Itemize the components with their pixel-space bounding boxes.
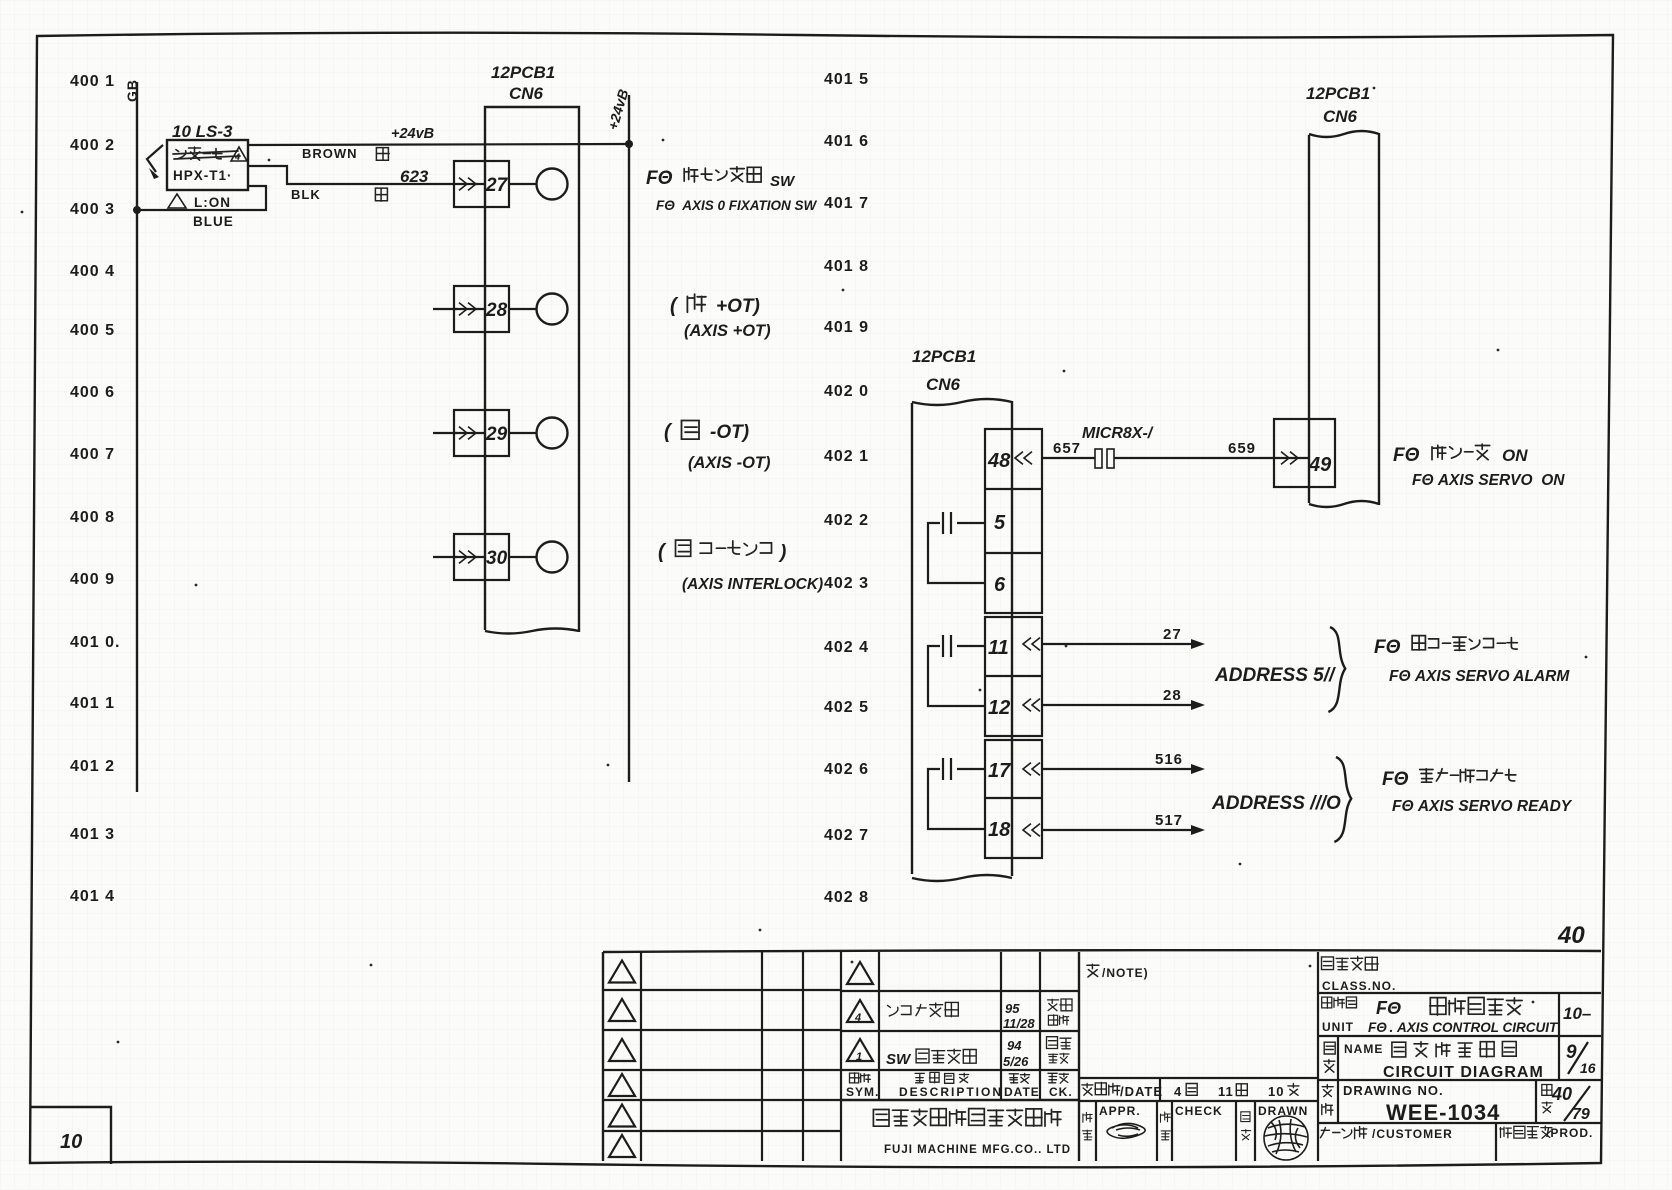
svg-text:FΘ AXIS 0 FIXATION SW: FΘ AXIS 0 FIXATION SW <box>656 198 818 213</box>
svg-text:FΘ AXIS SERVO READY: FΘ AXIS SERVO READY <box>1392 798 1573 815</box>
svg-text:APPR.: APPR. <box>1099 1104 1141 1118</box>
name cell circuit diagram <box>1324 1042 1596 1082</box>
revision table left <box>603 952 841 1161</box>
wire 516 from connector <box>1023 751 1205 775</box>
revision triangle 4 in sensor box <box>231 147 247 162</box>
annotation axis interlock (jp) <box>658 540 786 563</box>
svg-text:(AXIS INTERLOCK): (AXIS INTERLOCK) <box>682 576 823 593</box>
svg-text:18: 18 <box>988 819 1011 841</box>
svg-text:CN6: CN6 <box>509 84 544 103</box>
svg-text:12PCB1: 12PCB1 <box>491 63 555 82</box>
svg-text:/PROD.: /PROD. <box>1546 1126 1593 1140</box>
pointer arrow to sensor <box>147 145 163 179</box>
brace for address 511 <box>1328 627 1345 712</box>
sensor HPX-T1 body <box>167 140 248 190</box>
net ladder line numbers 4001-4014 <box>70 73 120 905</box>
svg-text:4: 4 <box>854 1012 861 1024</box>
brace for address 1110 <box>1334 757 1351 842</box>
svg-text:401 5: 401 5 <box>824 71 869 88</box>
svg-text:401 9: 401 9 <box>824 319 869 336</box>
svg-text:10–: 10– <box>1563 1004 1592 1023</box>
revision row 1 SW operation note <box>847 1037 1071 1069</box>
svg-text:ADDRESS 5//: ADDRESS 5// <box>1214 665 1336 686</box>
svg-text:402 8: 402 8 <box>824 889 869 906</box>
svg-text:FΘ: FΘ <box>1382 769 1409 790</box>
contact (capacitor symbol) pins 5-6 <box>928 512 985 583</box>
svg-text:CN6: CN6 <box>1323 107 1358 126</box>
connector pin 29 <box>433 410 568 456</box>
connector pin cells group 11/12 <box>985 617 1042 736</box>
svg-text:11: 11 <box>988 637 1009 659</box>
svg-text:402 1: 402 1 <box>824 448 869 465</box>
svg-text:400 3: 400 3 <box>70 201 115 218</box>
connector 12PCB1 CN6 right body <box>1309 133 1379 505</box>
junction node on GB <box>133 206 141 214</box>
svg-text:40: 40 <box>1557 922 1585 949</box>
svg-text:CIRCUIT DIAGRAM: CIRCUIT DIAGRAM <box>1383 1064 1544 1081</box>
svg-text:400 5: 400 5 <box>70 322 115 339</box>
svg-text:49: 49 <box>1308 454 1332 476</box>
svg-text:401 1: 401 1 <box>70 695 115 712</box>
annotation axis +OT (jp) <box>670 294 760 317</box>
annotation FO axis zero set SW (jp) <box>646 167 796 190</box>
svg-text:17: 17 <box>988 760 1011 782</box>
stamp row cells <box>1096 952 1318 1161</box>
svg-text:79: 79 <box>1572 1106 1590 1123</box>
annotation FO axis servo alarm (jp) <box>1374 636 1517 658</box>
revision header row SYM DESCRIPTION DATE CK <box>846 1072 1073 1099</box>
date row <box>1079 1078 1318 1101</box>
svg-text:CHECK: CHECK <box>1175 1104 1223 1118</box>
svg-text:400 7: 400 7 <box>70 446 115 463</box>
svg-text:(AXIS -OT): (AXIS -OT) <box>688 454 771 472</box>
junction node bus <box>625 140 633 148</box>
wire GB bus vertical <box>136 82 138 792</box>
svg-text:+24vB: +24vB <box>391 126 434 142</box>
scan specks (decorative) <box>21 87 1588 1044</box>
connector pin cells group 17/18 <box>985 740 1042 858</box>
svg-text:NAME: NAME <box>1344 1042 1383 1056</box>
connector pin 49 <box>1274 419 1335 487</box>
wire 27 from connector <box>1023 626 1205 650</box>
svg-text:FΘ AXIS SERVO ALARM: FΘ AXIS SERVO ALARM <box>1389 668 1570 685</box>
svg-text:(AXIS +OT): (AXIS +OT) <box>684 322 771 340</box>
net ladder line numbers 4015-4028 <box>824 71 869 906</box>
svg-text:UNIT: UNIT <box>1322 1020 1354 1034</box>
contact (capacitor symbol) pins 17-18 <box>928 758 985 829</box>
svg-text:BROWN: BROWN <box>302 146 358 161</box>
svg-text:401 2: 401 2 <box>70 758 115 775</box>
svg-text:SW: SW <box>770 173 796 190</box>
svg-text:CLASS.NO.: CLASS.NO. <box>1322 979 1396 993</box>
svg-text:402 4: 402 4 <box>824 639 869 656</box>
connector 12PCB1 CN6 left body <box>485 107 579 632</box>
svg-text:11/28: 11/28 <box>1003 1016 1035 1031</box>
svg-text:5: 5 <box>994 512 1006 534</box>
wire +24VB bus vertical <box>628 95 630 782</box>
connector pin 28 <box>433 286 568 332</box>
wire 659 to pin 49 <box>1114 452 1308 465</box>
svg-text:CN6: CN6 <box>926 375 961 394</box>
svg-text:27: 27 <box>1163 626 1182 643</box>
svg-text:402 6: 402 6 <box>824 761 869 778</box>
svg-text:29: 29 <box>485 424 508 445</box>
svg-text:401 8: 401 8 <box>824 258 869 275</box>
svg-text:SYM.: SYM. <box>846 1085 879 1099</box>
wire blue from sensor to GB <box>137 186 266 210</box>
svg-text:BLK: BLK <box>291 187 321 202</box>
svg-text:11: 11 <box>1218 1084 1234 1099</box>
svg-text:6: 6 <box>994 574 1006 596</box>
svg-text:40: 40 <box>1551 1084 1572 1104</box>
svg-text:28: 28 <box>1163 687 1182 704</box>
svg-text:CK.: CK. <box>1049 1085 1073 1099</box>
connector pin cells group 48/5/6 <box>985 429 1042 613</box>
svg-text:27: 27 <box>485 175 509 196</box>
revision table middle <box>841 952 1079 1161</box>
svg-text:WEE-1034: WEE-1034 <box>1386 1100 1500 1125</box>
svg-text:FΘ: FΘ <box>1374 637 1401 658</box>
svg-text:94: 94 <box>1007 1038 1022 1053</box>
svg-text:48: 48 <box>987 450 1011 472</box>
svg-text:400 4: 400 4 <box>70 263 115 280</box>
customer cell <box>1320 1126 1593 1141</box>
class no cell <box>1322 957 1397 994</box>
svg-text:FUJI MACHINE MFG.CO.. LTD: FUJI MACHINE MFG.CO.. LTD <box>884 1144 1071 1156</box>
color kanji black <box>375 188 387 201</box>
svg-text:1: 1 <box>856 1051 862 1063</box>
revision row 4 sensor change <box>847 999 1072 1031</box>
svg-text:SW: SW <box>886 1051 912 1068</box>
svg-text:12: 12 <box>988 697 1010 719</box>
wire 517 from connector <box>1023 812 1205 836</box>
svg-text:402 5: 402 5 <box>824 699 869 716</box>
svg-text:ON: ON <box>1502 446 1528 465</box>
svg-text:FΘ AXIS SERVO ON: FΘ AXIS SERVO ON <box>1412 472 1565 489</box>
revision row triangle blank <box>847 962 873 984</box>
connector pin 30 <box>433 534 568 580</box>
svg-text:FΘ . AXIS CONTROL CIRCUIT: FΘ . AXIS CONTROL CIRCUIT <box>1368 1020 1559 1035</box>
svg-text:401 4: 401 4 <box>70 888 115 905</box>
approver cell (jp vertical) <box>1083 1112 1093 1139</box>
connector 12PCB1 CN6 middle body <box>912 401 1012 876</box>
svg-text:FΘ: FΘ <box>1376 998 1401 1018</box>
svg-text:12PCB1: 12PCB1 <box>912 347 976 366</box>
svg-text:401 0.: 401 0. <box>70 634 120 651</box>
svg-text:516: 516 <box>1155 751 1183 768</box>
sensor old name crossed out <box>173 147 240 160</box>
svg-text:657: 657 <box>1053 440 1081 457</box>
drafter cell (jp vertical) <box>1241 1112 1251 1140</box>
svg-text:16: 16 <box>1580 1060 1596 1076</box>
svg-text:/NOTE): /NOTE) <box>1102 966 1149 980</box>
color kanji brown <box>376 148 389 161</box>
note cell <box>1087 964 1149 980</box>
svg-text:400 6: 400 6 <box>70 384 115 401</box>
svg-text:401 3: 401 3 <box>70 826 115 843</box>
svg-text:400 8: 400 8 <box>70 509 115 526</box>
svg-text:400 2: 400 2 <box>70 137 115 154</box>
svg-text:28: 28 <box>485 300 508 321</box>
svg-text:402 2: 402 2 <box>824 512 869 529</box>
svg-text:400 9: 400 9 <box>70 571 115 588</box>
svg-text:402 7: 402 7 <box>824 827 869 844</box>
svg-text:10 LS-3: 10 LS-3 <box>172 122 233 141</box>
wire 623 black from sensor to connector pin 27 <box>248 166 454 184</box>
annotation axis -OT (jp) <box>664 421 749 444</box>
note triangle L:ON <box>168 194 231 210</box>
svg-text:517: 517 <box>1155 812 1183 829</box>
svg-text:95: 95 <box>1005 1001 1020 1016</box>
wire 28 from connector <box>1023 687 1205 711</box>
svg-text:FΘ: FΘ <box>646 168 673 189</box>
svg-text:4: 4 <box>234 152 240 162</box>
annotation FO axis servo ON (jp) <box>1393 444 1528 466</box>
svg-text:BLUE: BLUE <box>193 214 234 229</box>
svg-text:FΘ: FΘ <box>1393 445 1420 466</box>
svg-text:5/26: 5/26 <box>1003 1054 1029 1069</box>
svg-text:MICR8X-/: MICR8X-/ <box>1082 425 1154 442</box>
APPR. label and stamp <box>1099 1104 1145 1138</box>
svg-text:623: 623 <box>400 167 429 186</box>
annotation FO axis servo ready (jp) <box>1382 769 1516 790</box>
svg-text:401 6: 401 6 <box>824 133 869 150</box>
svg-text:): ) <box>778 542 786 563</box>
connector pin 27 <box>454 161 568 207</box>
svg-text:ADDRESS ///O: ADDRESS ///O <box>1211 793 1341 814</box>
svg-text:402 3: 402 3 <box>824 575 869 592</box>
svg-text:10: 10 <box>60 1131 82 1153</box>
info section grid <box>1318 993 1601 1161</box>
svg-text:HPX-T1·: HPX-T1· <box>173 168 233 183</box>
svg-text:400 1: 400 1 <box>70 73 115 90</box>
svg-text:+OT): +OT) <box>716 296 760 317</box>
inline connector MICR8X-1 <box>1095 449 1114 468</box>
revision triangles left column <box>609 961 635 1158</box>
wire +24VB brown from sensor to bus <box>248 144 629 145</box>
checker cell (jp vertical) <box>1161 1112 1171 1140</box>
unit cell machine type <box>1322 997 1592 1035</box>
company name Fuji Machine Mfg (jp) <box>873 1109 1061 1127</box>
svg-text:401 7: 401 7 <box>824 195 869 212</box>
svg-text:/CUSTOMER: /CUSTOMER <box>1372 1127 1453 1141</box>
drawing no cell WEE-1034 <box>1322 1083 1590 1125</box>
svg-text:GB: GB <box>124 79 140 102</box>
page number box bottom left <box>30 1107 111 1164</box>
svg-text:DRAWING NO.: DRAWING NO. <box>1343 1083 1444 1098</box>
title block outline top <box>603 950 1601 952</box>
wire 657 from pin 48 <box>1015 452 1095 465</box>
svg-text:-OT): -OT) <box>710 422 749 443</box>
svg-text:402 0: 402 0 <box>824 383 869 400</box>
svg-text:12PCB1: 12PCB1 <box>1306 84 1370 103</box>
svg-text:L:ON: L:ON <box>194 195 231 210</box>
DRAWN label and round stamp <box>1258 1104 1308 1160</box>
svg-text:9: 9 <box>1566 1042 1577 1063</box>
svg-text:10: 10 <box>1268 1084 1284 1099</box>
svg-text:4: 4 <box>1174 1084 1182 1099</box>
contact (capacitor symbol) pins 11-12 <box>928 635 985 706</box>
svg-text:DATE: DATE <box>1004 1085 1040 1099</box>
svg-text:/DATE: /DATE <box>1120 1084 1163 1099</box>
svg-text:DESCRIPTION: DESCRIPTION <box>899 1085 1003 1099</box>
svg-text:30: 30 <box>486 548 508 569</box>
svg-text:659: 659 <box>1228 440 1256 457</box>
